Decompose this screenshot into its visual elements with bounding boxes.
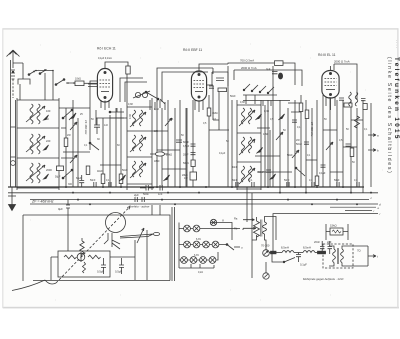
svg-text:50nF: 50nF xyxy=(122,169,128,172)
AVC component stack xyxy=(190,144,197,180)
title Telefunken 1015 (vertical) xyxy=(386,40,400,175)
trimmer solid arrow xyxy=(69,113,76,120)
capacitor C5 xyxy=(176,140,189,144)
svg-text:0µF: 0µF xyxy=(266,68,271,71)
svg-text:2000: 2000 xyxy=(46,168,52,172)
wire row A xyxy=(179,223,245,241)
band switch S1a xyxy=(62,109,73,119)
IF transformer pack rails xyxy=(237,100,261,190)
label Drehko-achse xyxy=(129,205,150,209)
tube V3 EL11 xyxy=(322,66,339,110)
svg-text:7Ω: 7Ω xyxy=(357,249,361,253)
svg-text:1nF: 1nF xyxy=(104,124,109,127)
tube V1 ECH11 xyxy=(88,62,128,110)
capacitor C8 xyxy=(209,86,214,88)
resistor 15k box xyxy=(326,224,348,241)
svg-text:0,38: 0,38 xyxy=(128,103,133,106)
bottom caps labels xyxy=(90,179,358,182)
variable cap section circles xyxy=(133,91,150,98)
svg-text:1890: 1890 xyxy=(263,133,269,136)
resistor R18 half watt xyxy=(55,166,64,179)
band switch cluster xyxy=(243,84,290,106)
svg-text:0,1µF: 0,1µF xyxy=(319,172,326,175)
bus c xyxy=(30,199,369,201)
AVC stack labels xyxy=(182,145,190,180)
dial lamp g xyxy=(210,218,224,226)
choke 8.5mH xyxy=(281,246,303,253)
antenna coil pack L1 xyxy=(17,98,59,190)
tuned circuit L2a xyxy=(129,110,146,127)
svg-text:0,1µF 0,1mA: 0,1µF 0,1mA xyxy=(98,57,112,60)
svg-text:0,5µF: 0,5µF xyxy=(97,270,104,274)
wire row B + switch xyxy=(179,244,243,250)
svg-text:0,38: 0,38 xyxy=(240,101,245,104)
svg-text:20nF: 20nF xyxy=(314,240,320,244)
bus end labels xyxy=(371,196,382,216)
resistor R15 xyxy=(344,103,352,107)
capacitor C16 2uF xyxy=(134,193,144,202)
capacitor 2uF xyxy=(327,240,332,254)
capacitor C10 xyxy=(292,120,297,122)
svg-text:60nF: 60nF xyxy=(183,140,189,144)
choke 0.5mH xyxy=(303,246,326,253)
bus b xyxy=(8,192,378,194)
svg-text:50µF: 50µF xyxy=(55,176,61,179)
svg-text:ZF 468 kHz: ZF 468 kHz xyxy=(310,122,314,137)
tuned circuit L1c xyxy=(26,163,52,183)
switch contact dots xyxy=(33,69,75,84)
extra IF column wires xyxy=(255,105,292,187)
trimmer arrow xyxy=(165,118,172,126)
resistor R5 xyxy=(218,88,227,92)
B+ rail B xyxy=(234,64,357,100)
bottom caps row along bus xyxy=(94,182,359,187)
tube V2 EBF11 xyxy=(191,64,228,112)
svg-text:0,5µF: 0,5µF xyxy=(115,270,122,274)
svg-text:50nF: 50nF xyxy=(334,179,340,182)
tuning drum xyxy=(106,213,126,233)
svg-text:50nF: 50nF xyxy=(232,179,238,182)
tuning mechanism box xyxy=(23,215,170,281)
dial lamp row B3 xyxy=(203,241,210,248)
svg-text:0,1µF: 0,1µF xyxy=(219,152,226,155)
dial cord dashed xyxy=(12,207,130,291)
svg-text:15kΩ: 15kΩ xyxy=(330,224,337,228)
svg-text:Ra: Ra xyxy=(234,217,238,221)
svg-text:ZF = 468 kHz: ZF = 468 kHz xyxy=(31,200,54,204)
svg-text:220: 220 xyxy=(46,139,51,143)
svg-text:Rb: Rb xyxy=(234,227,238,231)
resistor zigzag R14 xyxy=(355,116,360,128)
left column wires xyxy=(11,60,16,187)
svg-text:50nF: 50nF xyxy=(230,95,236,98)
svg-text:1MΩ: 1MΩ xyxy=(212,111,218,115)
svg-text:0,2A: 0,2A xyxy=(198,271,203,274)
resistor R4 xyxy=(119,174,123,184)
bus e xyxy=(273,214,378,224)
coupling brackets between tubes xyxy=(120,68,213,102)
output transformer xyxy=(323,244,353,268)
capacitor C12 xyxy=(321,165,326,167)
dial lamp row A2 xyxy=(193,225,200,232)
electrolytic cap xyxy=(266,68,283,79)
svg-text:40nF: 40nF xyxy=(232,166,238,169)
resistor R1 input xyxy=(75,78,97,86)
extra micro labels 2 xyxy=(67,118,368,186)
switch S4 xyxy=(295,167,305,176)
svg-text:Drehko - achse: Drehko - achse xyxy=(129,205,150,209)
right mid vertical wires xyxy=(268,66,371,193)
svg-text:70-100: 70-100 xyxy=(261,244,270,248)
scan noise xyxy=(30,44,383,300)
svg-text:3,5µF: 3,5µF xyxy=(183,145,190,148)
resistor R13 xyxy=(350,148,354,157)
svg-text:50nF: 50nF xyxy=(284,179,290,182)
short stubs near osc top xyxy=(150,99,165,110)
resistor R17 xyxy=(86,166,90,175)
svg-text:10kΩ: 10kΩ xyxy=(166,153,172,157)
dial lamp row B1 xyxy=(184,241,191,248)
misc labels mid band xyxy=(97,95,326,175)
svg-text:8,5mH: 8,5mH xyxy=(303,246,311,250)
wire drop xyxy=(247,187,276,278)
wire xyxy=(66,100,78,187)
svg-text:6,3V: 6,3V xyxy=(196,238,201,241)
capacitor C2 xyxy=(94,118,100,134)
capacitor C7 xyxy=(158,185,163,196)
wire xyxy=(51,205,160,280)
svg-text:50nF: 50nF xyxy=(296,142,302,146)
wire xyxy=(90,108,96,150)
svg-text:Mehrpreis gegen Aufpreis · 14: Mehrpreis gegen Aufpreis · 14 Ω xyxy=(303,277,344,281)
svg-text:0µF: 0µF xyxy=(58,207,63,211)
dial pointer xyxy=(120,228,160,243)
capacitor C19 xyxy=(76,175,84,187)
svg-text:0.32: 0.32 xyxy=(129,114,132,119)
mid band vertical wires xyxy=(103,66,232,187)
svg-text:50nF: 50nF xyxy=(287,154,293,157)
dial lamp row B4 xyxy=(212,241,219,248)
capacitor C15 0uF feed xyxy=(58,200,70,251)
wave trap box xyxy=(212,72,228,86)
resistor oval 10k xyxy=(150,152,172,157)
capacitor C14 60nF xyxy=(258,170,271,174)
dial lamp row C4 xyxy=(209,257,216,264)
svg-text:160: 160 xyxy=(46,109,51,113)
svg-text:1890: 1890 xyxy=(154,160,160,163)
tone coils right of V3 xyxy=(339,92,367,110)
antenna xyxy=(7,50,20,98)
lamp board box xyxy=(172,207,179,281)
svg-text:Rö II EBF 11: Rö II EBF 11 xyxy=(183,48,202,52)
dial lamp row B2 xyxy=(193,241,200,248)
solid trimmer arrows IF xyxy=(44,114,285,181)
input band switch row xyxy=(13,63,74,100)
resistor R12 xyxy=(315,176,319,186)
svg-text:2000 Ω 7mA: 2000 Ω 7mA xyxy=(241,66,257,70)
capacitor C17 xyxy=(97,258,106,274)
resistor R10 xyxy=(299,103,303,112)
B+ rail A xyxy=(228,59,295,86)
bus d xyxy=(30,203,378,205)
capacitor C18 xyxy=(115,258,124,274)
mid band horizontal links xyxy=(59,103,363,172)
IF tuned circuit c xyxy=(239,166,255,184)
junction dots xyxy=(65,186,372,205)
svg-text:(linke Seite des Schaltbildes): (linke Seite des Schaltbildes) xyxy=(386,57,392,175)
capacitor 20nF xyxy=(314,240,325,254)
svg-text:50nF: 50nF xyxy=(90,179,96,182)
resistor R3 xyxy=(101,174,105,184)
resistor zigzag Rp xyxy=(80,238,84,257)
svg-text:0,1µF: 0,1µF xyxy=(300,263,307,267)
resistor box top of V1 xyxy=(98,57,130,74)
wire xyxy=(63,151,90,153)
svg-text:300: 300 xyxy=(68,183,73,186)
svg-text:60µF: 60µF xyxy=(76,177,82,180)
labels Ra Rb xyxy=(234,217,256,231)
speaker line 7ohm xyxy=(352,246,378,266)
switch S2 xyxy=(89,142,99,150)
dial lamp row A1 xyxy=(184,225,191,232)
band switch S1b xyxy=(62,169,73,179)
trimmer arrows mid right xyxy=(70,122,333,163)
svg-text:ZF 468 kHz: ZF 468 kHz xyxy=(84,120,88,135)
svg-text:50nF: 50nF xyxy=(143,192,149,196)
capacitor C11 50nF xyxy=(296,142,309,146)
dial lamp row C3 xyxy=(200,257,207,264)
net arrow b xyxy=(368,149,379,153)
potentiometer box xyxy=(58,251,110,277)
lamp labels xyxy=(194,238,203,274)
ground arrow left xyxy=(8,187,16,211)
svg-text:Telefunken 1015: Telefunken 1015 xyxy=(393,57,400,141)
svg-text:40nF: 40nF xyxy=(97,170,103,173)
svg-text:20nF: 20nF xyxy=(183,154,189,157)
note text xyxy=(303,277,344,281)
drive contact xyxy=(104,233,120,249)
resistor R16 xyxy=(64,138,68,147)
extra tiny labels xyxy=(46,101,349,169)
phono jack J1 xyxy=(263,250,326,263)
tuned circuit L2c xyxy=(130,161,146,178)
dial lamp row C2 xyxy=(190,257,197,264)
svg-text:6,3V: 6,3V xyxy=(194,254,199,257)
bus a (main earth line) xyxy=(8,186,362,188)
net arrow a xyxy=(368,134,379,138)
svg-text:700 Ω 3mA: 700 Ω 3mA xyxy=(240,59,254,63)
IF tuned circuit b xyxy=(239,137,255,155)
capacitor 0.05uF xyxy=(296,253,307,267)
tuned circuit L1b xyxy=(26,134,51,154)
svg-text:8,5mH: 8,5mH xyxy=(281,246,289,250)
IF tuned circuit a xyxy=(239,108,255,126)
mains transformer vertical xyxy=(252,217,276,250)
svg-text:1nF: 1nF xyxy=(158,192,163,196)
svg-text:2000 Ω 7mA: 2000 Ω 7mA xyxy=(334,60,350,64)
svg-text:10kΩ: 10kΩ xyxy=(75,78,81,81)
oscillator coil pack L2 rails xyxy=(127,70,152,190)
svg-text:Rö III EL 11: Rö III EL 11 xyxy=(318,53,336,57)
capacitor C13 xyxy=(346,144,351,146)
svg-text:2µF: 2µF xyxy=(327,240,332,244)
svg-text:0,32: 0,32 xyxy=(154,108,159,111)
svg-text:. . . .: . . . . xyxy=(395,40,400,48)
dial lamp row C1 xyxy=(181,257,188,264)
svg-text:180: 180 xyxy=(154,130,159,133)
resistor R11 xyxy=(305,110,309,119)
resistor 1M xyxy=(207,108,217,116)
wire row C xyxy=(179,252,218,268)
jack J2 xyxy=(263,262,269,279)
tuned circuit L1a xyxy=(26,104,51,124)
svg-text:50kΩ: 50kΩ xyxy=(183,162,189,165)
tuned circuit L2b xyxy=(130,135,146,152)
svg-text:Rö I ECH 11: Rö I ECH 11 xyxy=(97,47,116,51)
svg-text:0,1: 0,1 xyxy=(213,118,217,121)
svg-text:0,38: 0,38 xyxy=(264,110,269,113)
misc top-left switch xyxy=(109,108,124,118)
svg-text:2µF: 2µF xyxy=(134,193,139,197)
switch dots S3 xyxy=(145,91,159,100)
capacitor C6 xyxy=(140,185,154,196)
